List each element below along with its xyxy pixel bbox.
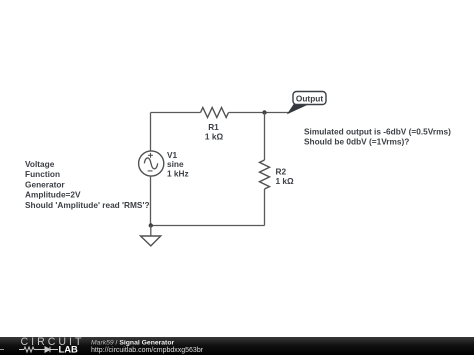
wire top horizontal left segment <box>151 112 201 114</box>
ground stub wire <box>150 226 152 237</box>
wire R2 bottom to bottom rail <box>264 189 266 226</box>
svg-text:1 kΩ: 1 kΩ <box>276 176 295 186</box>
svg-text:Should 'Amplitude' read 'RMS'?: Should 'Amplitude' read 'RMS'? <box>25 200 150 210</box>
svg-text:LAB: LAB <box>59 344 78 355</box>
output flag box <box>293 92 326 105</box>
wire top-left vertical (V1 top to corner) <box>150 113 152 152</box>
wire top horizontal right segment to output <box>229 112 291 114</box>
svg-text:http://circuitlab.com/cmpbdxxg: http://circuitlab.com/cmpbdxxg563br <box>91 347 204 354</box>
resistor R1 <box>201 108 229 118</box>
svg-text:1 kHz: 1 kHz <box>167 169 189 179</box>
svg-text:Output: Output <box>296 93 323 103</box>
svg-text:Voltage: Voltage <box>25 159 55 169</box>
svg-text:1 kΩ: 1 kΩ <box>205 132 224 142</box>
svg-text:Simulated output is -6dbV (=0.: Simulated output is -6dbV (=0.5Vrms) <box>304 126 451 136</box>
wire V1 bottom to bottom-left corner <box>150 176 152 226</box>
ground <box>141 236 161 246</box>
svg-text:Should be 0dbV (=1Vrms)?: Should be 0dbV (=1Vrms)? <box>304 137 409 147</box>
svg-text:R1: R1 <box>208 122 219 132</box>
svg-text:Generator: Generator <box>25 179 65 189</box>
svg-text:R2: R2 <box>276 167 287 177</box>
node junction dot top <box>262 110 266 114</box>
logo schematic wire with resistor and diode <box>19 347 58 352</box>
node junction dot bottom-left <box>149 223 153 227</box>
svg-text:Mark59 / Signal Generator: Mark59 / Signal Generator <box>91 339 174 346</box>
wire junction down to R2 <box>264 113 266 161</box>
resistor R2 <box>260 160 270 189</box>
svg-text:Function: Function <box>25 169 60 179</box>
logo schematic wire left edge <box>0 349 4 351</box>
note text left block <box>25 159 150 210</box>
wire bottom rail <box>151 225 265 227</box>
svg-text:Amplitude=2V: Amplitude=2V <box>25 190 81 200</box>
note text right block <box>304 126 451 146</box>
output flag tail <box>288 105 307 114</box>
voltage source V1 <box>139 151 164 176</box>
